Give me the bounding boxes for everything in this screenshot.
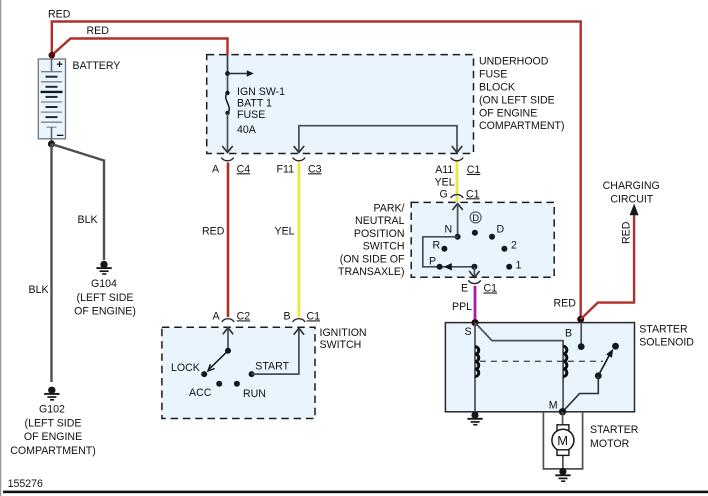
wire ignition wiper toward LOCK bbox=[209, 351, 228, 370]
svg-text:ACC: ACC bbox=[189, 387, 212, 399]
svg-text:RED: RED bbox=[202, 225, 225, 237]
ground G102 bbox=[44, 387, 59, 400]
svg-text:M: M bbox=[557, 433, 568, 448]
svg-text:LOCK: LOCK bbox=[171, 362, 200, 374]
svg-text:MOTOR: MOTOR bbox=[590, 438, 630, 450]
svg-text:C2: C2 bbox=[237, 310, 251, 322]
starter solenoid box bbox=[445, 323, 634, 412]
svg-text:G: G bbox=[440, 188, 448, 200]
node START contact bbox=[249, 371, 255, 377]
svg-text:(LEFT SIDE: (LEFT SIDE bbox=[25, 417, 82, 429]
svg-text:(ON LEFT SIDE: (ON LEFT SIDE bbox=[479, 94, 555, 106]
node P contact bbox=[437, 264, 443, 270]
ignition switch box bbox=[162, 327, 315, 418]
wire PPL E to starter solenoid S bbox=[474, 286, 477, 320]
node battery positive terminal bbox=[49, 52, 56, 59]
wire G entry to N contact bbox=[457, 204, 459, 237]
svg-text:POSITION: POSITION bbox=[354, 228, 405, 240]
svg-text:RUN: RUN bbox=[243, 388, 266, 400]
wire feed inside fuse block to junction bbox=[227, 55, 229, 74]
svg-text:B: B bbox=[284, 310, 291, 322]
label CHARGING CIRCUIT bbox=[603, 180, 660, 206]
svg-text:TRANSAXLE): TRANSAXLE) bbox=[338, 266, 405, 278]
wire plunger link to M bbox=[563, 376, 599, 412]
arrow exit from park/neutral switch bbox=[469, 271, 479, 278]
svg-text:BLK: BLK bbox=[29, 284, 49, 296]
svg-text:START: START bbox=[255, 361, 289, 373]
wire S diagonal to hold-in winding bbox=[475, 323, 563, 347]
arrow fuse block exit A11 C1 bbox=[452, 146, 462, 153]
node ACC contact bbox=[216, 381, 222, 387]
arrow entry into park/neutral switch bbox=[452, 204, 462, 211]
svg-text:A: A bbox=[212, 163, 220, 175]
connector A11 C1 bbox=[451, 158, 464, 161]
svg-text:PARK/: PARK/ bbox=[373, 203, 404, 215]
coil pull-in winding (left) bbox=[475, 323, 479, 412]
connector A C4 bbox=[221, 158, 234, 161]
svg-text:R: R bbox=[433, 239, 441, 251]
svg-text:C1: C1 bbox=[484, 283, 498, 295]
svg-text:UNDERHOOD: UNDERHOOD bbox=[479, 56, 549, 68]
svg-text:RED: RED bbox=[554, 297, 577, 309]
svg-text:BATTERY: BATTERY bbox=[73, 60, 121, 72]
node RUN contact bbox=[234, 381, 240, 387]
connector G C1 bbox=[451, 195, 464, 198]
node wiper junction bbox=[471, 264, 477, 270]
switch solenoid plunger arm bbox=[598, 349, 613, 376]
svg-text:STARTER: STARTER bbox=[590, 424, 639, 436]
svg-text:COMPARTMENT): COMPARTMENT) bbox=[10, 445, 96, 457]
node plunger pivot bbox=[595, 372, 602, 379]
arrow wiper pointing at LOCK bbox=[208, 364, 215, 371]
wire fuse output to connector C4 bbox=[227, 113, 229, 152]
svg-text:(ON SIDE OF: (ON SIDE OF bbox=[340, 253, 405, 265]
ground starter solenoid bbox=[467, 412, 482, 425]
svg-text:D: D bbox=[472, 213, 479, 224]
wire B terminal to contact bbox=[580, 323, 582, 347]
svg-text:YEL: YEL bbox=[435, 177, 455, 189]
arrow entry A into ignition switch bbox=[223, 328, 233, 335]
ground starter motor bbox=[555, 468, 570, 481]
wire RED B terminal to charging circuit bbox=[581, 208, 634, 319]
node B terminal bbox=[577, 316, 584, 323]
node S terminal bbox=[472, 319, 479, 326]
node 1 contact bbox=[506, 264, 512, 270]
connector F11 C3 bbox=[293, 158, 306, 161]
wire solenoid coil ground stub bbox=[474, 411, 476, 413]
svg-text:RED: RED bbox=[621, 221, 633, 244]
label PARK/NEUTRAL POSITION SWITCH bbox=[338, 203, 405, 279]
arrow to charging circuit bbox=[630, 204, 639, 216]
svg-text:OF ENGINE): OF ENGINE) bbox=[74, 306, 136, 318]
connector B C1 bbox=[293, 319, 306, 322]
svg-text:G102: G102 bbox=[39, 404, 65, 416]
underhood fuse block box bbox=[207, 55, 474, 154]
svg-text:C1: C1 bbox=[466, 188, 480, 200]
svg-text:C1: C1 bbox=[307, 310, 321, 322]
svg-text:–: – bbox=[57, 127, 64, 142]
svg-text:2: 2 bbox=[511, 240, 517, 252]
wire YEL C3 to ignition switch bbox=[297, 163, 300, 318]
node B contact bbox=[578, 343, 585, 350]
node M terminal bbox=[559, 408, 566, 415]
svg-text:OF ENGINE: OF ENGINE bbox=[24, 431, 82, 443]
arrow fuse block exit A C4 bbox=[222, 146, 232, 153]
arrow fuse block exit F11 C3 bbox=[294, 146, 304, 153]
battery BATTERY bbox=[38, 59, 65, 144]
svg-text:D: D bbox=[497, 224, 505, 236]
connector E C1 bbox=[468, 280, 481, 283]
wire A entry to pivot bbox=[227, 328, 229, 351]
svg-text:BLOCK: BLOCK bbox=[479, 82, 515, 94]
svg-text:155276: 155276 bbox=[8, 478, 43, 490]
node D contact bbox=[489, 234, 495, 240]
arrow to other circuits bbox=[228, 70, 254, 76]
svg-text:SWITCH: SWITCH bbox=[363, 241, 405, 253]
wire M to starter motor bbox=[562, 412, 564, 468]
svg-text:N: N bbox=[445, 224, 453, 236]
ground G104 bbox=[96, 261, 111, 274]
svg-text:YEL: YEL bbox=[275, 225, 295, 237]
node battery negative terminal bbox=[48, 140, 55, 147]
label G104 ground name bbox=[74, 278, 136, 318]
svg-text:A11: A11 bbox=[435, 164, 453, 176]
svg-text:+: + bbox=[56, 59, 62, 71]
node solenoid moving contact upper bbox=[612, 343, 619, 350]
label G102 ground name bbox=[10, 404, 96, 457]
wire junction to exit E bbox=[473, 267, 475, 277]
wire YEL A11 to park/neutral switch bbox=[455, 162, 458, 203]
svg-text:C3: C3 bbox=[308, 163, 322, 175]
svg-text:STARTER: STARTER bbox=[639, 324, 688, 336]
node fuse feed junction bbox=[225, 71, 230, 76]
wire BLK battery negative to G104 bbox=[52, 144, 105, 260]
fuse IGN SW-1 BATT 1 FUSE 40A bbox=[225, 91, 229, 116]
svg-text:1: 1 bbox=[516, 260, 522, 272]
svg-text:A: A bbox=[213, 310, 221, 322]
arrow exit B from ignition switch bbox=[294, 328, 304, 335]
motor circuit frame wires bbox=[543, 412, 582, 469]
svg-text:SOLENOID: SOLENOID bbox=[639, 337, 694, 349]
svg-text:M: M bbox=[549, 399, 558, 411]
svg-text:BATT 1: BATT 1 bbox=[237, 98, 272, 110]
indicator circled D bbox=[470, 212, 481, 223]
wire START to B exit bbox=[252, 328, 299, 374]
svg-text:COMPARTMENT): COMPARTMENT) bbox=[479, 120, 565, 132]
node N contact bbox=[455, 234, 461, 240]
wire BLK battery negative to G102 bbox=[50, 144, 52, 382]
node D indicator contact bbox=[472, 230, 478, 236]
motor STARTER MOTOR bbox=[552, 425, 574, 456]
connector A C2 bbox=[222, 319, 235, 322]
svg-text:G104: G104 bbox=[91, 278, 117, 290]
svg-text:CHARGING: CHARGING bbox=[603, 180, 660, 192]
svg-text:FUSE: FUSE bbox=[479, 69, 507, 81]
svg-text:40A: 40A bbox=[237, 124, 257, 136]
svg-text:PPL: PPL bbox=[452, 301, 472, 313]
svg-text:F11: F11 bbox=[277, 163, 295, 175]
svg-text:RED: RED bbox=[48, 9, 71, 21]
label UNDERHOOD FUSE BLOCK bbox=[479, 56, 565, 133]
svg-text:C1: C1 bbox=[467, 164, 481, 176]
node 2 contact bbox=[501, 246, 507, 252]
svg-text:IGN SW-1: IGN SW-1 bbox=[237, 86, 285, 98]
wire internal bus F11 to A11 bbox=[299, 126, 457, 152]
mechanical link dashed line bbox=[480, 360, 603, 362]
node LOCK contact bbox=[201, 371, 207, 377]
svg-text:SWITCH: SWITCH bbox=[320, 339, 362, 351]
svg-text:OF ENGINE: OF ENGINE bbox=[479, 107, 537, 119]
wire RED C4 to ignition switch bbox=[227, 163, 230, 318]
arrow wiper pointing at P bbox=[444, 263, 452, 270]
svg-text:BLK: BLK bbox=[78, 214, 98, 226]
node R contact bbox=[441, 246, 447, 252]
node ignition pivot bbox=[225, 348, 231, 354]
svg-text:S: S bbox=[465, 326, 472, 338]
coil hold-in winding (middle) bbox=[563, 346, 567, 412]
park/neutral position switch box bbox=[411, 202, 554, 277]
svg-text:C4: C4 bbox=[237, 163, 251, 175]
wire RED battery positive to fuse block bbox=[52, 39, 228, 74]
svg-text:NEUTRAL: NEUTRAL bbox=[355, 215, 405, 227]
svg-text:E: E bbox=[461, 283, 468, 295]
svg-text:FUSE: FUSE bbox=[237, 109, 265, 121]
wire RED battery positive to outer top rail bbox=[52, 22, 581, 320]
svg-text:IGNITION: IGNITION bbox=[320, 327, 367, 339]
wire fuse feed inside block bbox=[227, 74, 229, 93]
svg-text:CIRCUIT: CIRCUIT bbox=[610, 194, 653, 206]
svg-text:RED: RED bbox=[87, 25, 110, 37]
svg-text:B: B bbox=[565, 328, 572, 340]
svg-text:P: P bbox=[429, 256, 436, 268]
wire wiper path N to P row bbox=[423, 237, 475, 267]
svg-text:(LEFT SIDE: (LEFT SIDE bbox=[77, 292, 134, 304]
